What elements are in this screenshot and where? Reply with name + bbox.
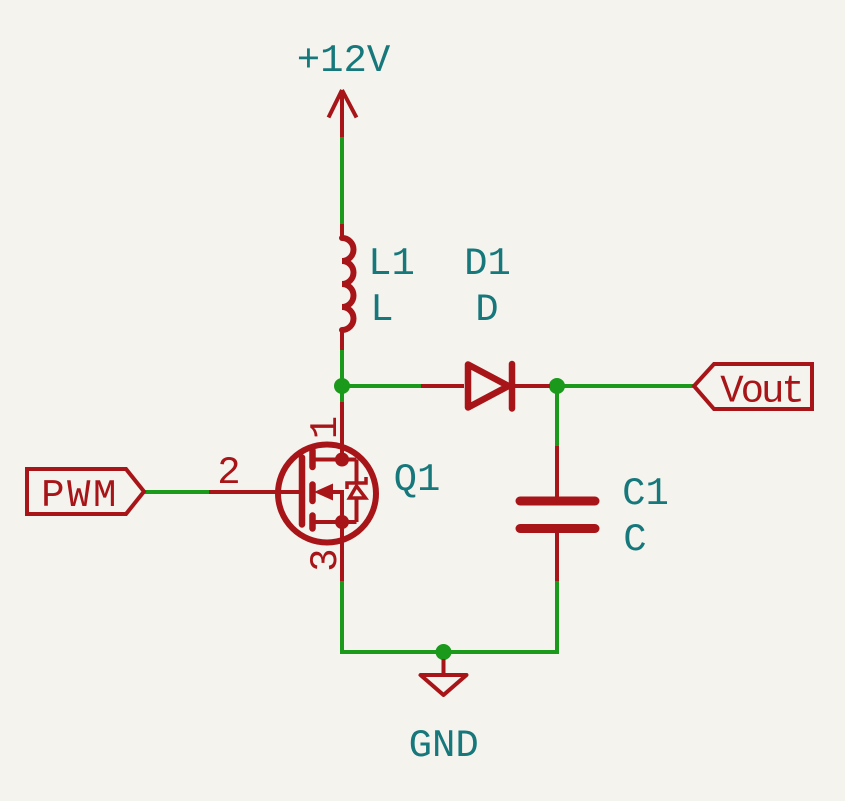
svg-text:1: 1 bbox=[304, 416, 348, 439]
svg-text:Vout: Vout bbox=[720, 370, 802, 414]
svg-text:C1: C1 bbox=[622, 472, 669, 516]
svg-text:3: 3 bbox=[304, 548, 348, 571]
svg-text:2: 2 bbox=[217, 451, 240, 495]
svg-text:D1: D1 bbox=[464, 242, 511, 286]
svg-text:D: D bbox=[475, 288, 498, 332]
svg-text:L1: L1 bbox=[368, 242, 415, 286]
svg-text:Q1: Q1 bbox=[394, 458, 441, 502]
svg-text:PWM: PWM bbox=[41, 474, 119, 518]
svg-text:GND: GND bbox=[409, 724, 479, 768]
svg-text:+12V: +12V bbox=[297, 39, 391, 83]
svg-text:C: C bbox=[623, 518, 646, 562]
svg-text:L: L bbox=[370, 288, 393, 332]
